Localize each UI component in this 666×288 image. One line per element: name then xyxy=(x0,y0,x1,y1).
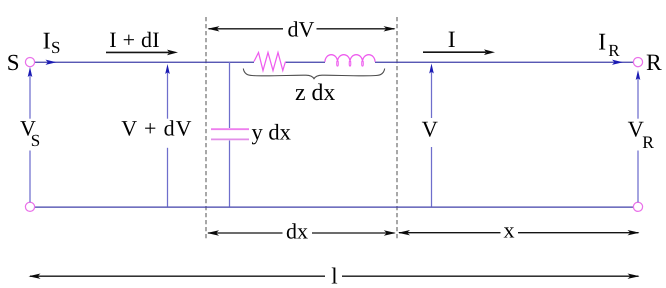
underbrace for z dx xyxy=(243,69,384,79)
voltage arrow V+dV xyxy=(165,64,170,207)
svg-text:x: x xyxy=(504,217,515,242)
terminal R xyxy=(633,58,642,67)
wire top segment resistor to inductor xyxy=(286,61,326,63)
terminal S xyxy=(25,58,34,67)
dimension arrow x xyxy=(398,230,640,235)
svg-text:R: R xyxy=(642,132,654,152)
svg-text:dx: dx xyxy=(286,218,308,243)
dimension arrow dV xyxy=(208,26,396,31)
svg-text:S: S xyxy=(7,50,20,75)
inductor loop tail 2 xyxy=(349,61,351,66)
svg-text:y dx: y dx xyxy=(252,120,291,145)
terminal bottom-left xyxy=(25,202,34,211)
dashed section boundary left xyxy=(205,17,207,241)
svg-text:I: I xyxy=(448,27,456,53)
svg-text:z dx: z dx xyxy=(295,80,335,106)
inductor z (4 loops) xyxy=(325,55,375,62)
current arrowhead I_S on wire xyxy=(46,60,57,65)
svg-text:V + dV: V + dV xyxy=(121,116,192,141)
svg-text:I: I xyxy=(598,29,606,55)
svg-text:l: l xyxy=(331,263,337,288)
svg-text:R: R xyxy=(608,41,620,60)
current arrow I+dI xyxy=(106,50,178,56)
dashed section boundary right xyxy=(396,17,398,241)
wire top segment inductor to R xyxy=(375,61,633,63)
voltage arrow V xyxy=(429,64,434,207)
svg-text:dV: dV xyxy=(288,16,315,41)
inductor loop tail 1 xyxy=(337,61,339,66)
current arrowhead I_R on wire xyxy=(612,60,623,65)
dimension arrow l xyxy=(29,274,640,279)
wire shunt branch to capacitor xyxy=(229,62,231,207)
voltage arrow V_S xyxy=(28,67,33,202)
capacitor y dx bottom plate xyxy=(211,138,249,140)
dimension arrow dx xyxy=(207,230,396,235)
wire bottom return conductor xyxy=(34,206,633,208)
voltage arrow V_R xyxy=(636,70,641,202)
svg-text:I + dI: I + dI xyxy=(109,27,160,52)
svg-text:I: I xyxy=(43,29,51,55)
resistor z (zigzag) xyxy=(254,53,286,71)
terminal bottom-right xyxy=(633,202,642,211)
inductor loop tail 3 xyxy=(362,61,364,66)
svg-text:V: V xyxy=(422,116,438,141)
svg-text:S: S xyxy=(31,131,40,150)
current arrow I xyxy=(423,49,495,55)
svg-text:R: R xyxy=(646,50,662,76)
svg-text:S: S xyxy=(51,38,60,57)
capacitor y dx top plate xyxy=(211,128,249,130)
wire top segment S to resistor xyxy=(34,61,254,63)
